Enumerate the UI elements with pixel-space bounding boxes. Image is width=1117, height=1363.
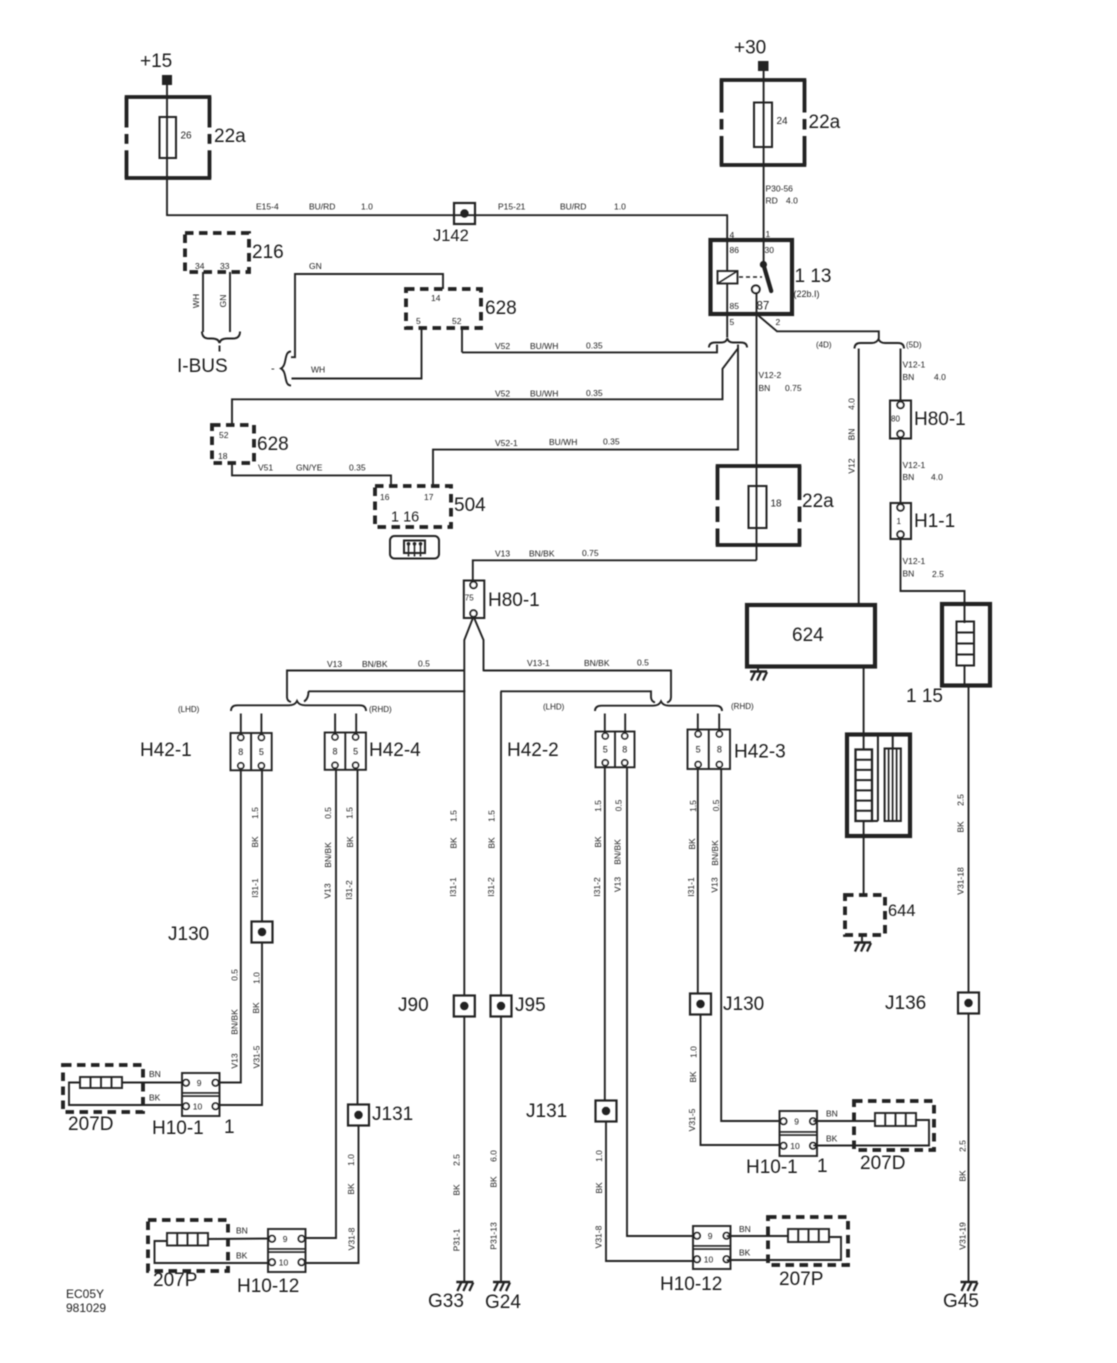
svg-text:628: 628	[485, 298, 517, 319]
svg-text:V13: V13	[613, 877, 623, 892]
svg-text:V51: V51	[258, 463, 273, 473]
svg-text:H10-1: H10-1	[746, 1157, 798, 1178]
svg-text:BK: BK	[688, 1071, 698, 1083]
svg-text:I31-1: I31-1	[250, 878, 260, 898]
fuse box 22a (fuse 24)	[720, 78, 807, 82]
svg-text:J130: J130	[168, 924, 209, 945]
module 624	[747, 605, 875, 667]
svg-text:207D: 207D	[68, 1114, 113, 1135]
connector H10-1 (right)	[780, 1111, 818, 1156]
svg-text:2.5: 2.5	[956, 794, 966, 806]
svg-text:9: 9	[794, 1116, 799, 1126]
svg-text:0.5: 0.5	[711, 799, 721, 811]
svg-text:I31-2: I31-2	[592, 877, 602, 897]
svg-text:J90: J90	[398, 995, 429, 1016]
wire GN to 628 pin 14	[291, 274, 443, 357]
svg-text:GN/YE: GN/YE	[296, 463, 323, 473]
svg-text:BN: BN	[903, 372, 915, 382]
svg-text:1.5: 1.5	[688, 800, 698, 812]
svg-text:0.5: 0.5	[230, 969, 240, 981]
svg-text:0.5: 0.5	[418, 659, 430, 669]
svg-text:H10-1: H10-1	[152, 1118, 204, 1139]
ground G33	[456, 1281, 473, 1283]
svg-text:0.5: 0.5	[614, 799, 624, 811]
junction J95	[491, 996, 512, 1017]
svg-text:WH: WH	[191, 294, 201, 308]
svg-text:0.35: 0.35	[349, 463, 366, 473]
wire V13-1 BN/BK 0.5 (right)	[484, 671, 672, 703]
svg-text:GN: GN	[309, 261, 322, 271]
svg-text:1.0: 1.0	[346, 1154, 356, 1166]
svg-text:1: 1	[817, 1156, 828, 1177]
svg-text:5: 5	[603, 745, 608, 755]
junction J142	[454, 203, 475, 224]
wire BK 207P to H10-12	[155, 1241, 272, 1263]
svg-text:H10-12: H10-12	[660, 1274, 722, 1295]
svg-text:P31-13: P31-13	[489, 1222, 499, 1250]
svg-text:1 13: 1 13	[795, 266, 832, 287]
svg-text:1.0: 1.0	[689, 1046, 699, 1058]
svg-text:1.0: 1.0	[361, 202, 373, 212]
svg-text:BU/WH: BU/WH	[530, 341, 558, 351]
wire 216 pin34 WH	[202, 272, 204, 332]
svg-text:80: 80	[891, 415, 900, 424]
svg-text:10: 10	[193, 1101, 203, 1111]
wire V13 BN/BK 0.5 from H42-1 pin 8	[220, 770, 241, 1082]
connector H42-2	[596, 732, 635, 768]
fuse 24 element	[754, 103, 772, 148]
svg-text:V31-19: V31-19	[958, 1222, 968, 1250]
svg-text:4.0: 4.0	[931, 472, 943, 482]
svg-text:14: 14	[431, 293, 441, 303]
svg-text:0.35: 0.35	[586, 388, 603, 398]
fuse 115 element	[957, 622, 975, 666]
svg-text:(5D): (5D)	[906, 341, 922, 350]
ground at 624	[757, 667, 759, 672]
wire V13 BN/BK 0.5 (left)	[287, 671, 464, 703]
svg-text:V12-1: V12-1	[903, 360, 926, 370]
svg-text:26: 26	[181, 131, 193, 142]
svg-text:86: 86	[730, 245, 740, 255]
wire V31-5 BK 1.0 to H10-1 right	[701, 1015, 781, 1146]
svg-text:2.5: 2.5	[452, 1154, 462, 1166]
svg-text:V31-18: V31-18	[956, 867, 966, 895]
svg-text:I31-1: I31-1	[686, 877, 696, 897]
svg-text:J95: J95	[515, 995, 546, 1016]
svg-text:BK: BK	[236, 1251, 248, 1261]
connector H1-1 (pin 1)	[891, 503, 912, 539]
fuse box 22a (fuse 26)	[125, 95, 212, 99]
wire V12-2 BN from relay 87	[756, 293, 758, 560]
svg-text:G33: G33	[428, 1291, 464, 1312]
svg-text:85: 85	[730, 301, 740, 311]
wire V31-19 BK 2.5	[968, 1014, 970, 1282]
ground G24	[493, 1281, 510, 1283]
svg-text:(LHD): (LHD)	[543, 703, 565, 712]
svg-text:V13: V13	[323, 883, 333, 898]
svg-text:BK: BK	[593, 836, 603, 848]
svg-text:981029: 981029	[66, 1301, 106, 1315]
wire V31-18 BK 2.5	[968, 686, 970, 993]
svg-text:10: 10	[704, 1254, 714, 1264]
svg-text:9: 9	[197, 1078, 202, 1088]
svg-text:V13: V13	[495, 549, 510, 559]
brace LHD/RHD (left group)	[231, 701, 366, 711]
wire V12-1 BN 2.5 (to fuse 115)	[901, 539, 965, 604]
wire V12-1 BN 4.0 (5D branch)	[900, 349, 902, 402]
wire V12 BN 4.0 (4D branch)	[858, 349, 860, 606]
svg-text:30: 30	[765, 245, 775, 255]
svg-text:BK: BK	[487, 837, 497, 849]
504 connector icon	[390, 536, 439, 559]
svg-text:18: 18	[771, 499, 783, 510]
svg-text:624: 624	[792, 625, 824, 646]
connector H80-1 (pin 80)	[890, 401, 911, 439]
svg-text:17: 17	[424, 492, 434, 502]
svg-text:33: 33	[220, 261, 230, 271]
svg-text:BK: BK	[149, 1093, 161, 1103]
svg-text:0.5: 0.5	[637, 658, 649, 668]
connector H42-4	[325, 733, 366, 770]
ground at 644	[861, 935, 863, 942]
svg-text:P30-56: P30-56	[766, 184, 794, 194]
wire BK 207D to H10-1	[69, 1083, 186, 1106]
svg-text:P15-21: P15-21	[498, 202, 526, 212]
wire V13 from H42-4 pin 8	[306, 770, 337, 1238]
wire P31-1 BK 2.5 to G33	[463, 1017, 465, 1282]
stub wires to H42-3	[697, 714, 699, 732]
stub wires to H42-2	[604, 714, 606, 734]
wire BK H10-12 to 207P right	[727, 1237, 842, 1260]
svg-text:BN: BN	[759, 383, 771, 393]
svg-text:I31-1: I31-1	[448, 877, 458, 897]
relay switch contact 30-87	[763, 240, 765, 265]
svg-text:8: 8	[622, 745, 627, 755]
svg-text:9: 9	[708, 1231, 713, 1241]
connector H10-1 (left)	[182, 1073, 220, 1116]
svg-text:5: 5	[259, 747, 264, 757]
svg-text:504: 504	[454, 495, 486, 516]
junction J90	[454, 996, 475, 1017]
svg-text:H80-1: H80-1	[914, 409, 966, 430]
svg-text:V13: V13	[327, 659, 342, 669]
stub wires to H42-4	[334, 714, 336, 735]
wire P31-13 BK 6.0 to G24	[500, 1017, 502, 1282]
svg-text:+30: +30	[734, 38, 766, 59]
svg-text:(RHD): (RHD)	[369, 705, 392, 714]
svg-text:BN: BN	[826, 1109, 838, 1119]
wire V13 BN/BK 0.5 from H42-2 pin 8	[627, 767, 695, 1236]
connector 628 (pins 52/18)	[212, 425, 254, 463]
svg-text:BK: BK	[449, 837, 459, 849]
junction J130 (left)	[252, 922, 273, 943]
svg-text:BK: BK	[594, 1182, 604, 1194]
svg-text:+15: +15	[140, 51, 172, 72]
svg-text:(22b.I): (22b.I)	[794, 289, 820, 299]
svg-text:BK: BK	[826, 1134, 838, 1144]
svg-text:H42-1: H42-1	[140, 740, 192, 761]
svg-text:BN/BK: BN/BK	[323, 842, 333, 868]
resistor unit 207P (right)	[768, 1217, 848, 1265]
svg-text:4.0: 4.0	[786, 196, 798, 206]
brace 4D/5D	[855, 339, 905, 349]
svg-text:WH: WH	[311, 365, 325, 375]
svg-text:52: 52	[452, 316, 462, 326]
svg-text:BN: BN	[847, 429, 857, 441]
wire 628 pin 52 to V52 wire	[461, 328, 463, 352]
svg-text:1.5: 1.5	[593, 800, 603, 812]
wire +30 through fuse 24	[763, 71, 765, 240]
svg-text:I31-2: I31-2	[344, 880, 354, 900]
lamp element (segmented)	[856, 750, 873, 822]
svg-text:0.75: 0.75	[785, 383, 802, 393]
wire V31-8 BK 1.0 to H10-12 right	[606, 1122, 695, 1262]
brace under relay pin 5	[709, 338, 747, 347]
wire I31-1 BK 1.5 from H42-1 pin 5	[261, 770, 263, 922]
svg-text:BU/WH: BU/WH	[549, 437, 577, 447]
svg-text:BN/BK: BN/BK	[710, 840, 720, 866]
connector H80-1 (pin 75)	[464, 581, 485, 619]
wire I31-1 BK 1.5 from H42-3 pin 5	[697, 769, 699, 994]
connector H10-12 (right)	[693, 1226, 731, 1269]
svg-text:8: 8	[333, 746, 338, 756]
wire BN H10-12 to 207P right	[727, 1235, 789, 1237]
wire WH to 628 pin 5	[292, 328, 422, 379]
relay contact dashed link	[739, 276, 762, 278]
svg-text:BN/BK: BN/BK	[613, 839, 623, 865]
svg-text:(4D): (4D)	[816, 341, 832, 350]
svg-text:BK: BK	[687, 838, 697, 850]
svg-text:216: 216	[252, 242, 284, 263]
svg-text:4.0: 4.0	[934, 372, 946, 382]
svg-text:BN: BN	[236, 1226, 248, 1236]
fuse holder 1 15	[942, 604, 990, 686]
svg-text:18: 18	[218, 451, 228, 461]
svg-text:1: 1	[766, 229, 771, 239]
svg-text:BN: BN	[739, 1224, 751, 1234]
svg-text:BK: BK	[345, 836, 355, 848]
junction J130 (right)	[690, 994, 711, 1015]
svg-text:V31-5: V31-5	[687, 1108, 697, 1131]
svg-text:0.5: 0.5	[323, 807, 333, 819]
svg-text:BN/BK: BN/BK	[230, 1009, 240, 1035]
wire V52 BU/WH (upper)	[462, 345, 717, 353]
svg-text:75: 75	[465, 594, 474, 603]
wire BN H10-1 to 207D right	[813, 1120, 875, 1122]
wire V13 BN/BK 0.5 from H42-3 pin 8	[721, 769, 780, 1121]
connector H42-1	[231, 733, 272, 770]
svg-text:V31-5: V31-5	[252, 1045, 262, 1068]
svg-text:1: 1	[224, 1117, 235, 1138]
wire V31-5 BK 1.0 to H10-1	[220, 943, 263, 1106]
svg-text:BK: BK	[958, 1170, 968, 1182]
wire BN 207P to H10-12	[208, 1238, 272, 1241]
svg-text:V12-1: V12-1	[903, 556, 926, 566]
svg-text:(LHD): (LHD)	[178, 705, 200, 714]
wire relay pin 5	[726, 314, 728, 338]
svg-text:BK: BK	[956, 821, 966, 833]
svg-text:1: 1	[897, 517, 902, 526]
svg-text:207P: 207P	[153, 1270, 197, 1291]
svg-text:10: 10	[790, 1141, 800, 1151]
svg-text:22a: 22a	[802, 491, 834, 512]
wire V51 GN/YE	[232, 463, 391, 486]
svg-text:BK: BK	[452, 1184, 462, 1196]
svg-text:E15-4: E15-4	[256, 202, 279, 212]
svg-text:1.5: 1.5	[250, 807, 260, 819]
brace LHD/RHD (right group)	[595, 701, 722, 711]
Y-split below H80-1	[464, 617, 473, 693]
svg-text:BN: BN	[903, 569, 915, 579]
relay coil	[726, 240, 728, 271]
svg-text:BU/WH: BU/WH	[530, 389, 558, 399]
wire +15 to fuse 26	[166, 85, 168, 216]
svg-text:V13-1: V13-1	[527, 658, 550, 668]
svg-text:5: 5	[353, 746, 358, 756]
svg-text:16: 16	[380, 492, 390, 502]
wire 624 to lamp	[863, 667, 865, 750]
svg-text:J136: J136	[885, 993, 926, 1014]
svg-text:5: 5	[416, 316, 421, 326]
svg-text:BN/BK: BN/BK	[529, 549, 555, 559]
junction J136	[958, 993, 979, 1014]
svg-text:H1-1: H1-1	[914, 511, 955, 532]
fuse 26 element	[160, 117, 177, 158]
svg-text:2.5: 2.5	[958, 1140, 968, 1152]
svg-text:H42-3: H42-3	[734, 742, 786, 763]
svg-text:4.0: 4.0	[847, 398, 857, 410]
svg-text:9: 9	[283, 1234, 288, 1244]
wire V12-1 BN 4.0 (to H1-1)	[900, 439, 902, 504]
connector 644	[845, 895, 885, 935]
wire BK H10-1 to 207D right	[813, 1120, 929, 1146]
wire E15-4 BU/RD	[167, 214, 728, 216]
junction J131 (left)	[348, 1105, 369, 1126]
svg-text:0.75: 0.75	[582, 548, 599, 558]
svg-text:-: -	[271, 363, 275, 375]
svg-text:I-BUS: I-BUS	[177, 356, 228, 377]
resistor unit 207D (left)	[63, 1065, 143, 1112]
svg-text:V31-8: V31-8	[594, 1225, 604, 1248]
fuse box 22a (fuse 18)	[716, 464, 802, 468]
wire lamp to 644	[863, 821, 865, 895]
svg-text:1.5: 1.5	[449, 810, 459, 822]
svg-text:BK: BK	[489, 1176, 499, 1188]
connector H42-3	[688, 730, 731, 770]
svg-text:207D: 207D	[860, 1153, 905, 1174]
svg-text:V31-8: V31-8	[347, 1227, 357, 1250]
svg-text:BK: BK	[346, 1183, 356, 1195]
svg-text:G45: G45	[943, 1291, 979, 1312]
wire V31-8 BK 1.0 to H10-12	[306, 1126, 359, 1264]
svg-text:BN: BN	[149, 1069, 161, 1079]
connector 216	[185, 233, 249, 272]
wire BN 207D to H10-1	[122, 1082, 186, 1084]
wire 216 pin33 GN	[229, 272, 231, 332]
svg-text:34: 34	[195, 261, 205, 271]
svg-text:(RHD): (RHD)	[731, 702, 754, 711]
svg-text:EC05Y: EC05Y	[66, 1287, 104, 1301]
wire I31-2 BK 1.5 from H42-4 pin 5	[357, 770, 359, 1105]
svg-text:GN: GN	[218, 295, 228, 308]
svg-text:V52: V52	[495, 389, 510, 399]
wire V13 BN/BK 0.75	[473, 560, 757, 581]
svg-text:1.0: 1.0	[594, 1150, 604, 1162]
svg-text:BK: BK	[739, 1248, 751, 1258]
svg-text:22a: 22a	[214, 126, 246, 147]
svg-text:5: 5	[696, 744, 701, 754]
svg-text:J131: J131	[372, 1104, 413, 1125]
svg-text:V13: V13	[230, 1053, 240, 1068]
svg-text:1.0: 1.0	[614, 202, 626, 212]
svg-text:8: 8	[238, 747, 243, 757]
svg-text:H42-4: H42-4	[369, 740, 421, 761]
headlamp unit box	[847, 735, 910, 837]
svg-text:V52-1: V52-1	[495, 438, 518, 448]
resistor unit 207P (left)	[148, 1220, 228, 1271]
svg-text:RD: RD	[766, 196, 778, 206]
junction J131 (right)	[596, 1101, 617, 1122]
resistor unit 207D (right)	[854, 1101, 934, 1150]
wire I31-2 BK 1.5 from H42-2 pin 5	[604, 767, 606, 1100]
svg-text:10: 10	[279, 1257, 289, 1267]
svg-text:87: 87	[757, 301, 770, 313]
wire V52-1 BU/WH to 504 pin 17	[433, 348, 738, 486]
stub wires to H42-1	[240, 714, 242, 735]
svg-text:J131: J131	[526, 1101, 567, 1122]
svg-text:BU/RD: BU/RD	[309, 202, 335, 212]
svg-text:BN/BK: BN/BK	[584, 658, 610, 668]
svg-text:BK: BK	[251, 1002, 261, 1014]
wire V52 BU/WH (lower) to 628-52	[232, 345, 738, 426]
svg-text:2.5: 2.5	[932, 569, 944, 579]
svg-text:22a: 22a	[809, 112, 841, 133]
svg-text:6.0: 6.0	[489, 1150, 499, 1162]
svg-text:1.5: 1.5	[487, 810, 497, 822]
svg-text:H80-1: H80-1	[488, 590, 540, 611]
relay 87 to pin 2 diagonal	[757, 314, 879, 339]
svg-text:BN/BK: BN/BK	[362, 659, 388, 669]
svg-text:BU/RD: BU/RD	[560, 202, 586, 212]
svg-text:644: 644	[888, 902, 916, 920]
svg-text:J130: J130	[723, 994, 764, 1015]
svg-text:5: 5	[730, 317, 735, 327]
svg-text:207P: 207P	[779, 1269, 823, 1290]
fuse 18 element	[749, 486, 767, 528]
svg-text:H10-12: H10-12	[237, 1276, 299, 1297]
svg-text:BN: BN	[903, 472, 915, 482]
svg-text:4: 4	[730, 230, 735, 240]
I-BUS brace	[202, 332, 240, 344]
ground G45	[961, 1281, 978, 1283]
svg-text:P31-1: P31-1	[452, 1228, 462, 1251]
svg-text:BK: BK	[250, 836, 260, 848]
svg-text:I31-2: I31-2	[486, 877, 496, 897]
svg-text:V52: V52	[495, 341, 510, 351]
svg-text:8: 8	[717, 744, 722, 754]
svg-text:1.5: 1.5	[345, 807, 355, 819]
svg-text:2: 2	[776, 317, 781, 327]
connector H10-12 (left)	[268, 1229, 306, 1272]
svg-text:V12: V12	[847, 458, 857, 473]
svg-text:V12-2: V12-2	[759, 370, 782, 380]
relay 113 box	[711, 240, 793, 314]
svg-text:1 16: 1 16	[391, 510, 419, 526]
connector 628 (pins 14/5/52)	[406, 289, 481, 328]
svg-text:V12-1: V12-1	[903, 460, 926, 470]
svg-text:24: 24	[777, 116, 789, 127]
svg-text:V13: V13	[710, 877, 720, 892]
